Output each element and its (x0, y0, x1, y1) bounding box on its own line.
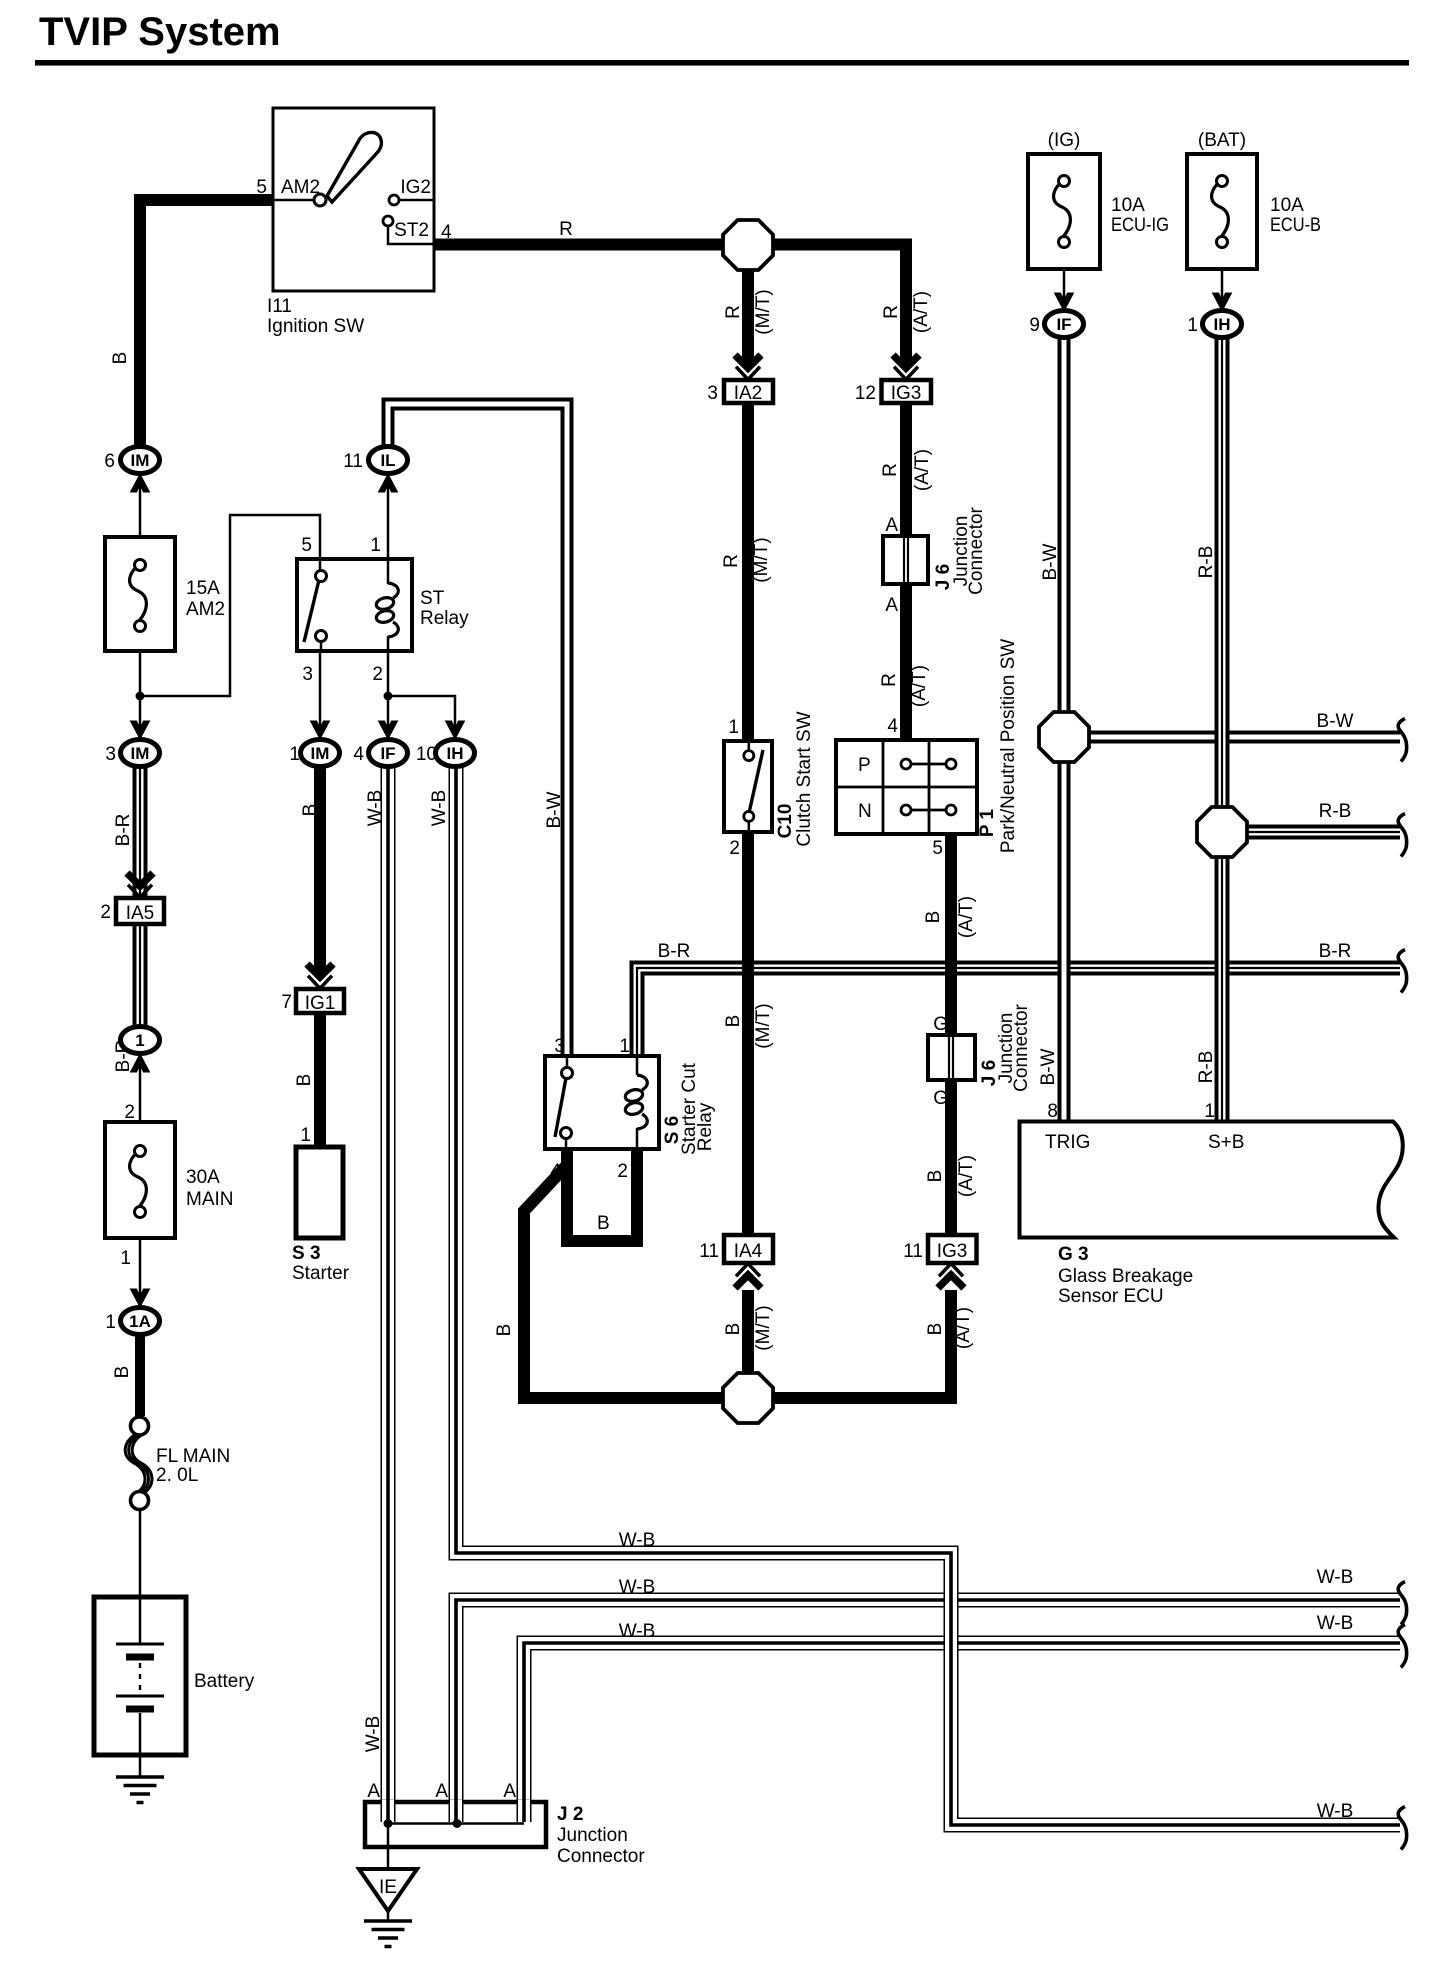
svg-text:10A: 10A (1111, 195, 1145, 216)
J6 divider (949, 1035, 953, 1080)
svg-text:8: 8 (1047, 1101, 1058, 1122)
svg-text:N: N (858, 801, 872, 822)
wire B-W from connector IF pin 9 to G3 ECU pin 8 (1058, 337, 1071, 1123)
connector arrow into IL pin 11 (379, 474, 398, 492)
svg-text:FL MAIN: FL MAIN (156, 1446, 230, 1467)
octagon splice node (723, 1373, 773, 1423)
wire: connector 1 to fuse MAIN (139, 1053, 142, 1123)
fuse 10A ECU-B box (1187, 154, 1257, 269)
wire: branch to connector IH pin 10 (388, 696, 455, 740)
connector arrow into IM pin 3 (131, 721, 150, 739)
octagon splice node (723, 220, 773, 270)
connector arrow into IF pin 9 (1055, 293, 1074, 311)
svg-text:ST2: ST2 (394, 220, 429, 241)
svg-text:3: 3 (707, 383, 718, 404)
svg-text:B: B (294, 1074, 315, 1087)
svg-text:W-B: W-B (365, 790, 386, 827)
connector IL pin 11 (369, 447, 408, 474)
C10 pin 2 stub (748, 821, 751, 831)
svg-text:A: A (885, 515, 898, 536)
svg-text:R: R (880, 463, 901, 477)
svg-text:W-B: W-B (429, 790, 450, 827)
wire W-B inside J2 (449, 1800, 464, 1822)
connector 1 (121, 1027, 160, 1054)
connector arrow into connector 1 (131, 1054, 150, 1072)
svg-text:G: G (933, 1014, 948, 1035)
wire B (M/T): clutch start SW pin 2 to connector IA4 pin 11 (742, 832, 754, 1237)
S6 contacts (562, 1068, 573, 1079)
fuse 15A AM2 box (105, 537, 175, 651)
svg-text:11: 11 (343, 451, 363, 472)
svg-text:B: B (494, 1324, 515, 1337)
svg-text:IG2: IG2 (400, 177, 431, 198)
svg-text:B: B (723, 1323, 744, 1336)
svg-text:R: R (723, 305, 744, 319)
svg-text:J 2: J 2 (557, 1804, 583, 1825)
svg-text:IM: IM (131, 451, 150, 470)
svg-text:IF: IF (380, 744, 395, 763)
svg-text:Clutch Start SW: Clutch Start SW (794, 711, 815, 846)
junction connector J6 box (928, 1035, 975, 1080)
fuse 10A ECU-IG box (1028, 154, 1100, 269)
C10 contacts (744, 751, 754, 761)
svg-text:IG3: IG3 (891, 383, 922, 404)
wire continuation symbol W-B (1398, 1625, 1406, 1668)
P1 contact N row (906, 809, 951, 812)
ST relay pin 5 stub (319, 560, 322, 571)
svg-text:Relay: Relay (695, 1102, 716, 1151)
svg-text:Connector: Connector (966, 507, 987, 595)
starter cut relay S6 box (545, 1056, 659, 1149)
svg-text:B: B (110, 352, 131, 365)
I11 switch lever (327, 132, 381, 202)
connector IH pin 1 (1203, 311, 1242, 338)
svg-text:IL: IL (380, 451, 395, 470)
svg-text:2: 2 (729, 838, 740, 859)
fuse 30A MAIN element (130, 1146, 147, 1218)
svg-text:P 1: P 1 (977, 808, 998, 837)
fusible link FL MAIN 2.0L (131, 1417, 149, 1435)
svg-text:12: 12 (855, 383, 876, 404)
svg-text:IE: IE (379, 1877, 397, 1898)
svg-text:5: 5 (932, 838, 943, 859)
junction dot below AM2 fuse (136, 692, 145, 701)
double arrow into connector IG3 (938, 1264, 964, 1289)
svg-text:B-W: B-W (1317, 711, 1354, 732)
svg-text:2: 2 (617, 1161, 628, 1182)
svg-text:3: 3 (105, 744, 116, 765)
svg-text:(A/T): (A/T) (953, 1307, 974, 1349)
connector IF pin 9 (1045, 311, 1084, 338)
svg-text:B: B (925, 1323, 946, 1336)
svg-text:W-B: W-B (619, 1577, 656, 1598)
wire: I11 AM2 contact lead (273, 199, 314, 202)
wire: ST relay pin 2 to connector IF pin 4 (387, 650, 390, 740)
svg-text:R-B: R-B (1319, 801, 1352, 822)
wire B-R from S6 relay pin 1 to right continuation (637, 968, 1400, 1056)
svg-text:TRIG: TRIG (1045, 1132, 1090, 1153)
ground symbol below battery (116, 1777, 164, 1803)
junction dot in J2 (384, 1819, 393, 1828)
svg-text:IG3: IG3 (937, 1241, 968, 1262)
svg-text:6: 6 (104, 451, 115, 472)
wire: fusible link to battery (139, 1508, 142, 1598)
svg-text:IM: IM (311, 744, 330, 763)
svg-text:I11: I11 (267, 296, 292, 317)
ground symbol below IE (364, 1921, 412, 1947)
svg-text:R: R (881, 305, 902, 319)
wire W-B inside J2 (381, 1800, 396, 1822)
svg-text:IF: IF (1056, 315, 1071, 334)
svg-text:2. 0L: 2. 0L (156, 1465, 198, 1486)
svg-text:B: B (723, 1015, 744, 1028)
connector IG1 box (296, 989, 344, 1013)
connector 1A pin 1 (121, 1308, 160, 1335)
connector arrow into IH pin 1 (1213, 293, 1232, 311)
svg-text:9: 9 (1029, 315, 1040, 336)
connector IA4 box (724, 1235, 773, 1263)
wire W-B from connector IH pin 10 to right continuation (456, 762, 1400, 1825)
fuse 10A ECU-B element (1212, 176, 1229, 248)
svg-text:1: 1 (619, 1036, 630, 1057)
connector arrow into IH pin 10 (446, 721, 465, 739)
wire B: ignition SW AM2 pin 5 to connector IM pin 6 (140, 200, 273, 450)
svg-text:R: R (721, 554, 742, 568)
wire: fuse ECU-IG to connector IF pin 9 (1063, 247, 1066, 312)
ST relay box (297, 559, 412, 651)
wire R: ignition SW ST2 pin 4 to connector IG3 pin 12 (434, 245, 906, 365)
svg-text:A: A (367, 1781, 380, 1802)
wire: fuse MAIN to connector 1A (139, 1237, 142, 1308)
junction connector J6 box (883, 536, 928, 584)
svg-text:(A/T): (A/T) (956, 1155, 977, 1197)
svg-text:1: 1 (1187, 315, 1198, 336)
wire W-B from right continuation to J2 junction connector (524, 1643, 1400, 1804)
svg-text:S 3: S 3 (292, 1243, 321, 1264)
svg-text:5: 5 (256, 177, 267, 198)
connector IA2 box (724, 380, 773, 403)
svg-text:4: 4 (887, 716, 898, 737)
battery box (94, 1597, 186, 1755)
svg-text:B-R: B-R (113, 814, 134, 847)
S6 coil to pin 2 stub (636, 1128, 639, 1148)
ST relay switch contacts (316, 571, 327, 582)
svg-text:4: 4 (441, 222, 452, 243)
S6 lever (555, 1078, 566, 1137)
wire: fuse ECU-B to connector IH pin 1 (1221, 247, 1224, 312)
svg-text:Sensor ECU: Sensor ECU (1058, 1286, 1164, 1307)
wire continuation symbol W-B (1398, 1807, 1406, 1850)
connector arrow into IM pin 6 (131, 474, 150, 492)
svg-text:W-B: W-B (619, 1530, 656, 1551)
clutch start SW C10 box (724, 741, 772, 832)
svg-text:(M/T): (M/T) (753, 289, 774, 334)
svg-text:ECU-IG: ECU-IG (1111, 215, 1169, 236)
I11 ST2 contact and lead (383, 216, 393, 226)
wire R (M/T): connector IA2 to clutch start SW pin 1 (742, 402, 754, 742)
svg-text:Park/Neutral Position SW: Park/Neutral Position SW (998, 639, 1019, 853)
svg-text:3: 3 (554, 1036, 565, 1057)
svg-text:G: G (933, 1088, 948, 1109)
connector IF pin 4 (369, 740, 408, 767)
svg-text:IH: IH (447, 744, 464, 763)
wire B (A/T): J6 to connector IG3 pin 11 (945, 1078, 957, 1237)
title underline rule (35, 60, 1409, 66)
svg-text:1: 1 (289, 744, 300, 765)
battery cells (139, 1599, 142, 1643)
wire: connector IL to ST relay coil (387, 473, 390, 584)
svg-text:Starter: Starter (292, 1263, 350, 1284)
double arrow into connector IA2 (735, 355, 761, 380)
J6 divider (904, 536, 908, 584)
wire R (A/T): J6 to park/neutral position SW pin 4 (900, 583, 912, 742)
svg-text:B: B (923, 911, 944, 924)
connector arrow into IM pin 1 (311, 721, 330, 739)
wire W-B from right continuation to J2 junction connector (456, 1600, 1400, 1804)
double arrow into connector IA4 (735, 1264, 761, 1289)
svg-text:IH: IH (1214, 315, 1231, 334)
fuse 30A MAIN box (105, 1122, 175, 1238)
wire B-R from connector IM pin 3 to connector 1 (133, 764, 148, 1029)
svg-text:1A: 1A (129, 1312, 151, 1331)
svg-text:W-B: W-B (363, 1716, 384, 1753)
svg-text:B-R: B-R (658, 941, 691, 962)
svg-text:5: 5 (301, 535, 312, 556)
connector IG3 box (928, 1235, 977, 1263)
junction dot below ST relay pin 2 (384, 692, 393, 701)
svg-text:(BAT): (BAT) (1198, 130, 1246, 151)
wire B-W from connector IL pin 11 to S6 relay pin 3 (388, 404, 567, 1057)
wire: branch from AM2 fuse output to ST relay pin 5 (140, 515, 320, 696)
svg-text:W-B: W-B (1317, 1567, 1354, 1588)
svg-text:10A: 10A (1270, 195, 1304, 216)
svg-text:(IG): (IG) (1048, 130, 1081, 151)
I11 IG2 contact and lead (389, 195, 399, 205)
svg-text:Connector: Connector (1011, 1004, 1032, 1092)
wire B: connector 1A to fusible link FL MAIN (135, 1336, 145, 1416)
ST relay coil (375, 583, 398, 637)
junction dot in J2 (453, 1819, 462, 1828)
wire B (A/T): connector IG3 up from octagon splice (748, 1290, 951, 1398)
park/neutral position SW P1 box (836, 740, 977, 834)
double arrow into connector IG3 (893, 355, 919, 380)
junction connector J2 box (365, 1802, 546, 1847)
G3 glass breakage sensor ECU box (1020, 1122, 1403, 1238)
J2 internal bus (388, 1822, 524, 1825)
C10 lever (749, 750, 763, 813)
svg-text:10: 10 (416, 744, 437, 765)
svg-text:R: R (879, 673, 900, 687)
svg-text:(A/T): (A/T) (911, 291, 932, 333)
svg-text:IG1: IG1 (305, 993, 336, 1014)
double arrow into connector IA5 (127, 873, 153, 898)
wire B: connector IG1 to starter S3 pin 1 (314, 1012, 326, 1150)
wire B (A/T): park/neutral SW pin 5 to junction connector J6 (945, 832, 957, 1037)
svg-text:W-B: W-B (1317, 1801, 1354, 1822)
wire continuation symbol R-B (1398, 814, 1406, 857)
svg-text:R-B: R-B (1196, 546, 1217, 579)
svg-text:P: P (858, 755, 871, 776)
svg-text:B: B (925, 1170, 946, 1183)
octagon splice node (1197, 807, 1247, 857)
wire B (M/T): connector IA4 up from octagon splice (742, 1290, 754, 1398)
connector IM pin 1 (301, 740, 340, 767)
svg-text:IA5: IA5 (126, 903, 155, 924)
svg-text:11: 11 (699, 1241, 719, 1262)
svg-text:B: B (597, 1213, 610, 1234)
svg-text:1: 1 (1204, 1101, 1215, 1122)
svg-text:(M/T): (M/T) (753, 1003, 774, 1048)
svg-text:Glass Breakage: Glass Breakage (1058, 1266, 1193, 1287)
svg-text:B-W: B-W (1038, 1048, 1059, 1085)
svg-text:C10: C10 (775, 804, 796, 839)
wire continuation symbol B-W (1398, 719, 1406, 762)
svg-text:Relay: Relay (420, 608, 469, 629)
svg-text:B: B (112, 1366, 133, 1379)
svg-text:3: 3 (302, 664, 313, 685)
S6 pin 3 stub (566, 1058, 569, 1068)
svg-text:W-B: W-B (1317, 1613, 1354, 1634)
svg-text:AM2: AM2 (186, 599, 225, 620)
svg-text:ECU-B: ECU-B (1270, 215, 1321, 236)
svg-text:Connector: Connector (557, 1846, 645, 1867)
wire B: connector IM pin 1 to connector IG1 pin 7 (314, 766, 326, 973)
svg-text:R: R (559, 219, 573, 240)
double arrow into connector IG1 (307, 964, 333, 989)
svg-text:B-R: B-R (1319, 941, 1352, 962)
wire B-W from octagon node to right continuation (1085, 731, 1400, 744)
svg-text:2: 2 (372, 664, 383, 685)
svg-text:1: 1 (120, 1248, 131, 1269)
svg-text:A: A (435, 1781, 448, 1802)
wire continuation symbol W-B (1398, 1582, 1406, 1625)
ST relay coil to pin 2 stub (387, 636, 390, 650)
svg-text:G 3: G 3 (1058, 1244, 1089, 1265)
svg-text:Junction: Junction (557, 1825, 628, 1846)
svg-text:1: 1 (370, 535, 381, 556)
wire R-B from connector IH pin 1 to G3 ECU pin 1 (1215, 337, 1230, 1123)
svg-text:S+B: S+B (1208, 1132, 1244, 1153)
wire R (M/T): octagon splice down to connector IA2 pin 3 (742, 245, 754, 365)
ground point IE triangle (359, 1869, 417, 1911)
svg-text:4: 4 (550, 1161, 561, 1182)
P1 contact P row (906, 763, 951, 766)
wire: ST relay pin 3 to connector IM pin 1 (319, 650, 322, 740)
svg-text:AM2: AM2 (281, 177, 320, 198)
I11 AM2 contact (314, 194, 326, 206)
svg-text:IM: IM (131, 744, 150, 763)
svg-text:W-B: W-B (619, 1621, 656, 1642)
wire R (A/T): connector IG3 to junction connector J6 (900, 402, 912, 538)
svg-text:B: B (300, 804, 321, 817)
fuse 10A ECU-IG element (1054, 176, 1071, 248)
starter S3 box (296, 1147, 343, 1238)
connector IA5 box (116, 898, 164, 924)
svg-text:2: 2 (124, 1102, 135, 1123)
svg-text:Ignition SW: Ignition SW (267, 316, 364, 337)
wire: connector IM to fuse AM2 (139, 473, 142, 538)
svg-text:4: 4 (353, 744, 364, 765)
connector IM pin 6 (121, 447, 160, 474)
connector arrow into 1A (131, 1289, 150, 1307)
wire B: S6 relay pin 4 to pin 2 link (567, 1148, 637, 1241)
svg-text:B-W: B-W (544, 791, 565, 828)
svg-text:11: 11 (903, 1241, 923, 1262)
svg-text:IA4: IA4 (734, 1241, 763, 1262)
wire: battery negative to ground (139, 1755, 142, 1778)
svg-text:R-B: R-B (1196, 1051, 1217, 1084)
svg-text:A: A (503, 1781, 516, 1802)
octagon splice node (1039, 712, 1089, 762)
svg-text:Battery: Battery (194, 1671, 255, 1692)
svg-text:MAIN: MAIN (186, 1189, 234, 1210)
svg-text:IA2: IA2 (734, 383, 763, 404)
connector IG3 box (882, 380, 932, 403)
wire R-B from octagon node to right continuation (1241, 825, 1400, 840)
svg-text:A: A (885, 595, 898, 616)
wire: IE to ground (387, 1911, 390, 1921)
svg-text:TVIP System: TVIP System (39, 10, 281, 54)
wire W-B inside J2 (517, 1800, 532, 1822)
C10 pin 1 stub (748, 742, 751, 751)
svg-text:30A: 30A (186, 1167, 220, 1188)
svg-text:(M/T): (M/T) (751, 537, 772, 582)
S6 pin 1 to coil stub (636, 1058, 639, 1075)
ST relay pin 3 stub (320, 641, 323, 650)
wire B: octagon splice to S6 relay pin 4 (524, 1150, 748, 1398)
svg-text:1: 1 (728, 717, 739, 738)
ignition switch I11 box (273, 108, 434, 291)
fuse 15A AM2 element (130, 560, 147, 632)
svg-text:1: 1 (300, 1125, 311, 1146)
connector IH pin 10 (436, 740, 475, 767)
svg-text:B-W: B-W (1040, 543, 1061, 580)
P1 grid dividers (836, 740, 977, 834)
svg-text:15A: 15A (186, 578, 220, 599)
svg-text:1: 1 (135, 1031, 144, 1050)
S6 relay coil (624, 1075, 647, 1129)
connector IM pin 3 (121, 740, 160, 767)
svg-text:2: 2 (100, 902, 111, 923)
svg-text:1: 1 (105, 1312, 116, 1333)
svg-text:(A/T): (A/T) (909, 665, 930, 707)
svg-text:7: 7 (281, 992, 292, 1013)
svg-text:ST: ST (420, 588, 445, 609)
svg-text:(A/T): (A/T) (912, 449, 933, 491)
S6 pin 4 stub (565, 1138, 568, 1148)
svg-text:(A/T): (A/T) (956, 896, 977, 938)
wire continuation symbol B-R (1398, 950, 1406, 993)
ST relay lever (304, 580, 319, 642)
wire W-B from connector IF pin 4 down to J2 (381, 762, 396, 1804)
svg-text:(M/T): (M/T) (753, 1305, 774, 1350)
wire: fuse AM2 to connector IM pin 3 (139, 650, 142, 741)
connector arrow into IF pin 4 (379, 721, 398, 739)
wire: J2 to ground point IE (387, 1824, 390, 1870)
